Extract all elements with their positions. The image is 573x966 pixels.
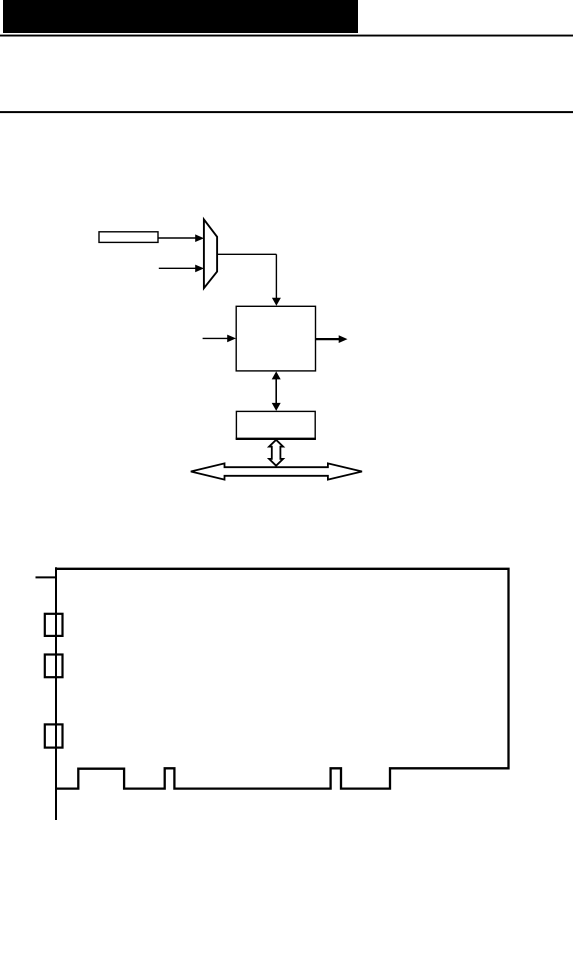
wire: mux output horizontal xyxy=(217,253,276,255)
bracket top tab tick xyxy=(36,576,57,578)
header rule bottom xyxy=(0,111,573,113)
header rule top xyxy=(0,35,573,37)
bracket connector 1 xyxy=(45,614,63,636)
hollow horizontal bus double arrow xyxy=(191,463,362,479)
wire: right output arrow (thick) xyxy=(316,338,340,340)
buffer box thick bottom edge xyxy=(236,438,316,440)
arrowhead into controller left xyxy=(227,335,236,343)
arrowhead into mux input 1 xyxy=(195,234,204,242)
header black bar xyxy=(3,0,358,33)
bracket connector 2 xyxy=(45,655,63,678)
controller box xyxy=(236,306,315,371)
buffer box xyxy=(236,411,315,438)
wire: left input arrow xyxy=(203,337,228,339)
bracket connector 3 xyxy=(45,724,63,747)
card outline with edge connector notches xyxy=(56,569,509,789)
arrowhead into mux input 2 xyxy=(195,265,204,273)
wire: mux output vertical drop xyxy=(275,254,277,298)
input register box xyxy=(99,232,158,243)
wire: register to mux input 1 xyxy=(158,237,197,239)
multiplexer (trapezoid) xyxy=(204,219,217,288)
bracket vertical line xyxy=(55,567,57,820)
hollow vertical double arrow: buffer to bus xyxy=(269,440,283,466)
vertical double arrow: controller to buffer xyxy=(275,376,277,406)
arrowhead into controller box top xyxy=(272,298,281,306)
wire: mux input 2 xyxy=(159,267,197,269)
arrowhead out right xyxy=(339,335,348,343)
